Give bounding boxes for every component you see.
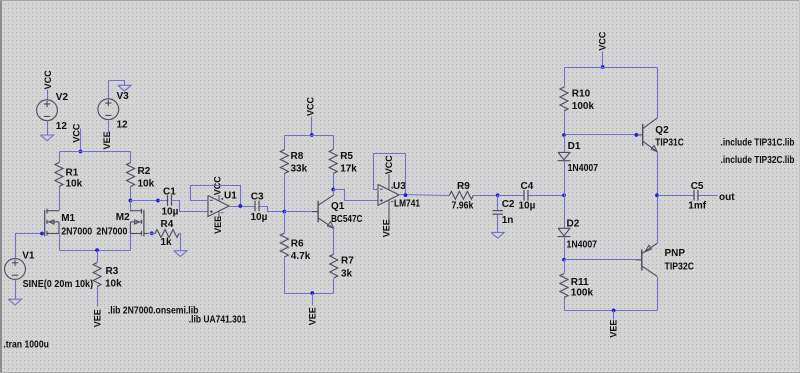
svg-text:VCC: VCC [598, 31, 608, 51]
net flag VEE at output stage [608, 320, 618, 338]
svg-text:1mf: 1mf [688, 201, 706, 212]
junction R8 R6 base node [283, 210, 287, 214]
transistor Q1 BC547C [312, 195, 334, 228]
value 1mf of C5 [688, 201, 706, 212]
wire V2 bottom [47, 121, 49, 136]
svg-text:M1: M1 [61, 213, 75, 224]
ground below V2 [40, 135, 53, 141]
net flag out [719, 192, 735, 203]
svg-text:10k: 10k [66, 178, 83, 189]
wire V1 to M1 gate [16, 234, 42, 259]
resistor R2 [127, 163, 135, 187]
wire Q1 emitter down [333, 229, 335, 255]
svg-text:U1: U1 [224, 191, 237, 202]
label C5 [691, 181, 704, 192]
svg-text:100k: 100k [572, 101, 595, 112]
svg-text:7.96k: 7.96k [452, 200, 474, 211]
svg-text:Q2: Q2 [655, 125, 669, 136]
wire R9 to node [474, 195, 498, 197]
label R6 [291, 239, 304, 250]
svg-text:1k: 1k [161, 237, 173, 248]
svg-text:Q1: Q1 [331, 201, 345, 212]
wire R2 to node [130, 187, 132, 201]
wire R3 lower lead [97, 287, 99, 307]
label R11 [571, 277, 589, 288]
value 100k of R10 [572, 101, 595, 112]
op-amp U1 [208, 195, 229, 218]
value 10u of C1 [162, 206, 179, 217]
label R9 [457, 181, 470, 192]
wire R1 to M1 drain [59, 187, 61, 211]
ground below V1 [8, 299, 21, 305]
net flag VCC at V2 [43, 70, 53, 90]
wire R11 upper lead [564, 260, 566, 274]
wire U3 output [400, 195, 450, 196]
svg-text:3k: 3k [341, 269, 353, 280]
label D1 [568, 141, 581, 152]
svg-text:100k: 100k [571, 287, 594, 298]
label R1 [66, 168, 79, 179]
wire R10 lower lead [564, 112, 566, 136]
wire VEE rail mid [285, 293, 334, 295]
svg-text:R1: R1 [66, 168, 79, 179]
value BC547C of Q1 [331, 214, 363, 225]
svg-text:R6: R6 [291, 239, 304, 250]
junction mid VCC rail [310, 133, 314, 137]
junction M2 gate / R4 [150, 231, 154, 235]
svg-text:4.7k: 4.7k [291, 251, 311, 262]
value 1N4007 of D1 [568, 163, 599, 174]
net flag VEE at U3 [381, 219, 391, 237]
wire VCC stub top [602, 52, 604, 68]
svg-text:U3: U3 [393, 181, 406, 192]
wire R6 upper lead [284, 212, 286, 234]
junction VEE rail mid [310, 291, 314, 295]
value 7.96k of R9 [452, 200, 474, 211]
svg-text:LM741: LM741 [394, 198, 420, 209]
svg-text:.lib UA741.301: .lib UA741.301 [189, 315, 247, 326]
value 10k of R3 [105, 278, 122, 289]
junction D1 D2 node [562, 193, 566, 197]
wire R1 upper lead [59, 152, 61, 163]
wire D2 lower lead [564, 237, 566, 260]
label D2 [567, 219, 580, 230]
wire to Q2 base [565, 134, 637, 136]
svg-text:VEE: VEE [381, 219, 391, 237]
junction D2 R11 base node [562, 258, 566, 262]
wire VEE stub mid [312, 294, 314, 306]
resistor R10 [560, 87, 568, 111]
svg-text:1N4007: 1N4007 [568, 163, 599, 174]
wire U1 output [230, 206, 256, 208]
wire R5 lower lead [333, 174, 335, 190]
wire C1 to U1 +in [172, 201, 209, 212]
label R8 [291, 151, 304, 162]
wire D2 upper lead [564, 196, 566, 229]
ground at C2 [491, 232, 504, 238]
wire node to C1 [131, 200, 159, 202]
voltage source V3 [98, 99, 119, 120]
svg-text:R10: R10 [572, 88, 591, 99]
wire Q2 emitter down [657, 152, 659, 196]
value LM741 of U3 [394, 198, 420, 209]
svg-text:out: out [719, 192, 735, 203]
wire bottom rail [565, 310, 658, 312]
label R7 [341, 256, 354, 267]
wire R5 upper lead [333, 136, 335, 150]
value 12 of V2 [56, 121, 68, 132]
junction R10 D1 base node [562, 133, 566, 137]
wire U1 feedback [191, 186, 241, 207]
value 17k of R5 [340, 163, 357, 174]
svg-text:R11: R11 [571, 277, 589, 288]
wire R8 upper lead [284, 136, 286, 150]
svg-text:.lib 2N7000.onsemi.lib: .lib 2N7000.onsemi.lib [108, 306, 198, 317]
wire into C4 [498, 195, 525, 197]
svg-text:.tran 1000u: .tran 1000u [3, 340, 49, 351]
resistor R11 [560, 274, 568, 298]
label U3 [393, 181, 406, 192]
wire rail R8-R5 [285, 135, 334, 137]
junction R2 bottom node [129, 199, 133, 203]
svg-text:VEE: VEE [608, 320, 618, 338]
wire R4 to ground [180, 234, 181, 251]
wire top rail R1-R2 [60, 151, 131, 153]
svg-text:.include TIP31C.lib: .include TIP31C.lib [721, 138, 795, 149]
capacitor C1 [168, 195, 172, 206]
svg-text:C3: C3 [251, 191, 264, 202]
value 2N7000 of M2 [96, 227, 127, 238]
svg-text:10k: 10k [105, 278, 122, 289]
wire R2 bottom to M2 drain [130, 201, 132, 212]
wire C4 to D node [529, 195, 565, 197]
wire V3 bottom [108, 120, 110, 134]
value 100k of R11 [571, 287, 594, 298]
svg-text:R2: R2 [138, 166, 151, 177]
junction U3 output [404, 193, 408, 197]
label Q1 [331, 201, 345, 212]
svg-text:12: 12 [56, 121, 68, 132]
wire PNP emitter up [657, 196, 659, 244]
transistor M1 2N7000 [42, 209, 60, 237]
value 1k of R4 [161, 237, 173, 248]
voltage source V1 [5, 259, 26, 280]
net flag VCC at Q1 stage [306, 96, 316, 116]
net flag VCC at divider rail [71, 123, 81, 143]
value 10u of C3 [251, 212, 268, 223]
svg-text:M2: M2 [116, 212, 130, 223]
svg-text:12: 12 [117, 120, 129, 131]
label R5 [340, 151, 353, 162]
svg-text:D2: D2 [567, 219, 580, 230]
svg-text:2N7000: 2N7000 [96, 227, 127, 238]
wire R7 lower lead [333, 279, 335, 294]
svg-text:VEE: VEE [213, 216, 223, 234]
directive .include TIP32C [721, 155, 795, 166]
resistor R1 [55, 163, 63, 187]
svg-text:1n: 1n [502, 215, 514, 226]
wire collector node to U3 +in [334, 190, 379, 201]
svg-text:10µ: 10µ [519, 200, 536, 211]
svg-text:C2: C2 [502, 199, 515, 210]
label C4 [521, 181, 534, 192]
svg-text:VCC: VCC [71, 123, 81, 143]
junction top rail VCC [601, 65, 605, 69]
ground at V3 top [118, 85, 131, 91]
svg-text:PNP: PNP [665, 248, 686, 259]
svg-text:17k: 17k [340, 163, 357, 174]
svg-text:V3: V3 [117, 91, 130, 102]
net flag VEE at Q1 stage [307, 307, 317, 325]
junction R9 C2 C4 [496, 193, 500, 197]
wire M1 source down [59, 234, 61, 251]
value 12 of V3 [117, 120, 129, 131]
wire R11 lower lead [564, 298, 566, 311]
svg-text:R9: R9 [457, 181, 470, 192]
value TIP32C of PNP [665, 262, 695, 273]
value SINE of V1 [23, 279, 94, 290]
value 3k of R7 [341, 269, 353, 280]
transistor PNP TIP32C [636, 243, 658, 276]
directive .lib 2N7000 [108, 306, 198, 317]
wire R8 lower lead [284, 174, 286, 212]
svg-text:10µ: 10µ [251, 212, 268, 223]
wire Q1 collector up [333, 190, 335, 195]
svg-text:TIP31C: TIP31C [655, 138, 684, 149]
net flag VEE at V3 [102, 131, 112, 149]
svg-text:VCC: VCC [43, 70, 53, 90]
label C2 [502, 199, 515, 210]
wire VCC stub mid [311, 117, 313, 136]
capacitor C3 [255, 201, 259, 212]
op-amp U3 LM741 [378, 174, 399, 221]
resistor R5 [329, 150, 337, 174]
value 2N7000 of M1 [61, 227, 92, 238]
wire R3 upper lead [97, 251, 99, 263]
label U1 [224, 191, 237, 202]
net flag VEE at R3 [93, 309, 103, 327]
wire R6 lower lead [284, 258, 286, 294]
transistor Q2 TIP31C [636, 118, 657, 151]
svg-text:R4: R4 [161, 219, 174, 230]
net flag VCC at output stage [598, 31, 608, 51]
resistor R8 [280, 150, 288, 174]
label R2 [138, 166, 151, 177]
net flag VCC at U3 [384, 155, 394, 175]
wire VEE stub bottom [613, 311, 615, 320]
svg-text:V2: V2 [56, 92, 69, 103]
junction bottom rail VEE [612, 309, 616, 313]
value TIP31C of Q2 [655, 138, 684, 149]
net flag VEE at U1 [213, 216, 223, 234]
svg-text:R7: R7 [341, 256, 354, 267]
resistor R6 [280, 233, 288, 257]
junction M1 gate pin [40, 232, 44, 236]
wire D1 lower lead [564, 161, 566, 196]
capacitor C5 [694, 190, 698, 201]
wire V2 top [47, 90, 49, 100]
svg-text:VEE: VEE [307, 307, 317, 325]
label PNP [665, 248, 686, 259]
svg-text:TIP32C: TIP32C [665, 262, 695, 273]
wire VCC stub [80, 129, 82, 152]
wire R10 upper lead [564, 68, 566, 88]
ground at R4 [174, 251, 187, 257]
value 1n of C2 [502, 215, 514, 226]
resistor R7 [330, 254, 338, 278]
wire into C1 [159, 200, 168, 202]
svg-text:33k: 33k [291, 163, 308, 174]
label R4 [161, 219, 174, 230]
svg-text:R3: R3 [106, 266, 119, 277]
svg-text:2N7000: 2N7000 [61, 227, 92, 238]
value 4.7k of R6 [291, 251, 311, 262]
junction VCC rail [79, 150, 83, 154]
wire C5 to out flag [699, 195, 718, 197]
label R10 [572, 88, 591, 99]
svg-text:C4: C4 [521, 181, 534, 192]
resistor R4 [155, 230, 179, 238]
svg-text:R5: R5 [340, 151, 353, 162]
svg-text:D1: D1 [568, 141, 581, 152]
wire D1 upper lead [564, 136, 566, 153]
directive .tran [3, 340, 49, 351]
svg-text:VEE: VEE [102, 131, 112, 149]
label Q2 [655, 125, 669, 136]
wire C2 lower lead [497, 215, 499, 233]
svg-text:BC547C: BC547C [331, 214, 363, 225]
resistor R9 [449, 191, 473, 199]
svg-text:C5: C5 [691, 181, 704, 192]
svg-text:C1: C1 [163, 186, 176, 197]
resistor R3 [93, 263, 101, 287]
svg-text:.include TIP32C.lib: .include TIP32C.lib [721, 155, 795, 166]
svg-text:VEE: VEE [93, 309, 103, 327]
junction Q2 base pin [635, 133, 639, 137]
voltage source V2 [37, 100, 58, 121]
svg-text:10k: 10k [138, 178, 155, 189]
wire U3 feedback [374, 154, 406, 195]
directive .lib UA741 [189, 315, 247, 326]
label V3 [117, 91, 130, 102]
value 33k of R8 [291, 163, 308, 174]
value 1N4007 of D2 [567, 239, 598, 250]
value 10k of R1 [66, 178, 83, 189]
svg-text:SINE(0 20m 10k): SINE(0 20m 10k) [23, 279, 94, 290]
svg-text:V1: V1 [22, 251, 35, 262]
label R3 [106, 266, 119, 277]
svg-text:VCC: VCC [306, 96, 316, 116]
wire base node to Q1 [285, 211, 312, 213]
label C3 [251, 191, 264, 202]
label C1 [163, 186, 176, 197]
wire R2 upper lead [130, 152, 132, 163]
junction Q1 collector node [331, 188, 335, 192]
value 10u of C4 [519, 200, 536, 211]
wire to PNP base [565, 259, 636, 261]
net flag VCC at U1 [212, 176, 222, 196]
capacitor C2 [493, 211, 503, 215]
label V2 [56, 92, 69, 103]
svg-text:VCC: VCC [384, 155, 394, 175]
label M2 [116, 212, 130, 223]
svg-text:R8: R8 [291, 151, 304, 162]
directive .include TIP31C [721, 138, 795, 149]
wire gate to R4 [148, 233, 156, 235]
junction emitters output node [655, 193, 659, 197]
svg-text:1N4007: 1N4007 [567, 239, 598, 250]
label M1 [61, 213, 75, 224]
wire C3 to base node [260, 207, 285, 212]
wire top rail [565, 67, 658, 69]
transistor M2 2N7000 [130, 209, 147, 237]
junction at C1 left [156, 199, 160, 203]
wire V3 top to ground flag [109, 81, 125, 99]
capacitor C4 [524, 190, 528, 201]
wire Q2 collector up [657, 68, 659, 119]
wire V1 bottom [15, 280, 17, 300]
value 10k of R2 [138, 178, 155, 189]
svg-text:10µ: 10µ [162, 206, 179, 217]
wire PNP collector down [657, 277, 659, 311]
junction U1 output [238, 204, 242, 208]
diode D2 1N4007 [558, 228, 571, 236]
diode D1 1N4007 [558, 152, 571, 160]
wire C2 upper lead [497, 196, 499, 211]
label V1 [22, 251, 35, 262]
wire M2 source down [130, 234, 132, 251]
wire into C5 [658, 195, 695, 197]
junction source rail R3 [95, 248, 99, 252]
wire source rail [60, 250, 131, 252]
